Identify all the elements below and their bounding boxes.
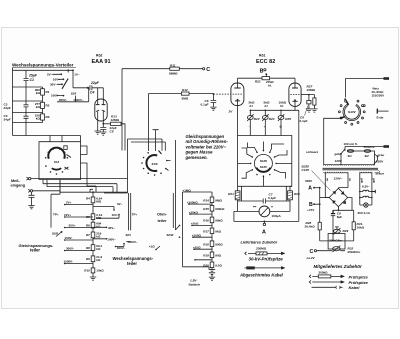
wire: gold tap xyxy=(340,153,342,155)
box resistor R30 xyxy=(328,234,345,250)
svg-text:9MΩ: 9MΩ xyxy=(215,199,222,203)
svg-text:C: C xyxy=(310,249,314,255)
svg-text:R29: R29 xyxy=(343,229,349,233)
ohm divider tap stubs xyxy=(189,204,212,260)
svg-text:Mitgeliefertes Zubehör: Mitgeliefertes Zubehör xyxy=(314,264,363,269)
svg-text:36V 0,1A: 36V 0,1A xyxy=(358,211,371,215)
svg-text:100µA: 100µA xyxy=(272,214,282,218)
capacitor C9 (electrolytic) xyxy=(331,210,335,213)
wire: right triode grid to R27/C8 node xyxy=(301,94,309,96)
svg-text:1000V~: 1000V~ xyxy=(73,98,84,102)
svg-text:Lieferbares Zubehör: Lieferbares Zubehör xyxy=(241,241,278,245)
svg-text:S1/I: S1/I xyxy=(54,160,60,164)
node A (meter output) xyxy=(264,221,266,223)
wire: left cathode to ground xyxy=(97,121,99,131)
svg-text:900Ω: 900Ω xyxy=(215,242,223,246)
svg-text:gelb: gelb xyxy=(372,178,375,183)
ground (R10) xyxy=(90,277,96,280)
switch S2/II arm xyxy=(51,180,60,228)
svg-text:A: A xyxy=(262,230,266,236)
svg-text:gold: gold xyxy=(334,152,342,156)
svg-text:R9: R9 xyxy=(86,257,90,261)
potentiometer R29 xyxy=(335,227,339,229)
switch S1/I wiper contact R xyxy=(64,146,67,150)
svg-text:S1/IV: S1/IV xyxy=(348,110,357,114)
svg-text:S2/II: S2/II xyxy=(52,232,58,236)
rotary switch S1/IV ring xyxy=(343,104,361,120)
terminal B (right) xyxy=(313,203,315,205)
svg-text:gelb: gelb xyxy=(360,178,363,183)
resistor R5 xyxy=(91,214,95,220)
svg-text:C1: C1 xyxy=(30,78,34,82)
wire: horizontal row 2 xyxy=(13,86,43,88)
svg-text:×1kΩ: ×1kΩ xyxy=(191,222,199,226)
switch S2/I wiper xyxy=(62,79,68,89)
scale lamp xyxy=(360,204,372,206)
svg-text:R11: R11 xyxy=(170,63,176,67)
svg-text:Kabel: Kabel xyxy=(349,285,361,290)
resistor R8 xyxy=(91,245,95,251)
wire: cathode bus of pots xyxy=(250,101,298,110)
svg-text:Irl.: Irl. xyxy=(250,104,254,108)
svg-text:R4: R4 xyxy=(86,197,90,201)
mains plug pin 1 xyxy=(384,77,390,80)
svg-text:Irl.: Irl. xyxy=(265,104,269,108)
svg-text:kΩ: kΩ xyxy=(96,234,101,238)
svg-text:Irl.: Irl. xyxy=(268,83,272,87)
svg-text:R6: R6 xyxy=(86,223,90,227)
terminal: measuring input 1 xyxy=(27,177,29,180)
accessories: shielded cable xyxy=(246,266,255,269)
tube EAA91 anode plates xyxy=(96,104,106,106)
svg-text:R16: R16 xyxy=(203,219,209,223)
wire: horizontal row 3 xyxy=(13,100,43,102)
svg-text:R18: R18 xyxy=(203,242,209,246)
svg-text:kΩ: kΩ xyxy=(96,247,101,251)
svg-text:kΩ: kΩ xyxy=(36,91,41,95)
resistor R26 (wirewound) xyxy=(290,186,292,191)
heater Rö1 xyxy=(360,190,372,191)
svg-text:S2/III: S2/III xyxy=(167,233,174,237)
capacitor (input 2 to ground) xyxy=(29,192,35,205)
svg-text:R12: R12 xyxy=(182,88,188,92)
svg-text:230MΩ: 230MΩ xyxy=(256,247,267,251)
contact stub T xyxy=(153,130,159,151)
svg-text:×100Ω: ×100Ω xyxy=(192,233,202,237)
box around rotary switch S1/I xyxy=(39,142,81,180)
tube Rö1 ECC82 right triode xyxy=(294,78,296,87)
svg-text:EAA 91: EAA 91 xyxy=(92,59,111,65)
resistor R4 xyxy=(91,197,95,203)
capacitor C5 xyxy=(100,124,106,132)
svg-text:C: C xyxy=(206,67,210,73)
wire: horizontal row 4 xyxy=(13,112,43,114)
resistor R18 xyxy=(210,241,214,247)
svg-text:100V-: 100V- xyxy=(65,236,73,240)
heater Rö2 xyxy=(360,196,372,197)
wire: top bus of AC divider xyxy=(13,69,74,71)
wire: grid feed (dashed) to ECC82 left grid xyxy=(213,93,231,95)
svg-text:kΩ: kΩ xyxy=(36,105,41,109)
svg-text:kΩ: kΩ xyxy=(96,258,101,262)
ground (R27) xyxy=(311,109,317,112)
box around rotary switch S1/III xyxy=(238,136,292,187)
resistor R28 xyxy=(318,222,321,230)
wire: S1/I box bottom to DC divider xyxy=(59,180,61,193)
rotary switch S1/III contacts xyxy=(263,150,265,152)
svg-text:+: + xyxy=(264,125,266,129)
label pointer B255 xyxy=(312,171,331,191)
svg-text:Erde: Erde xyxy=(377,116,384,120)
svg-text:schwarz: schwarz xyxy=(306,150,319,154)
svg-text:50mA tr.: 50mA tr. xyxy=(364,145,376,149)
resistor R19 xyxy=(210,252,214,258)
svg-text:88MΩ: 88MΩ xyxy=(169,71,178,75)
transformer secondary (anode) winding xyxy=(324,172,348,173)
wire: top bus to S1/I box xyxy=(13,136,81,142)
svg-text:S1/IV: S1/IV xyxy=(260,165,268,169)
capacitor C7 xyxy=(238,199,291,204)
svg-text:200kΩ/lin: 200kΩ/lin xyxy=(329,238,342,242)
svg-text:Batterie: Batterie xyxy=(189,282,201,286)
svg-text:+47V: +47V xyxy=(307,208,315,212)
svg-text:grau: grau xyxy=(377,153,385,157)
svg-text:S2/I: S2/I xyxy=(71,92,77,96)
resistor R22 xyxy=(262,77,270,80)
svg-text:R5: R5 xyxy=(86,215,90,219)
potentiometer R23 xyxy=(249,110,251,115)
wire: left triode cathode down to S1/III box xyxy=(237,101,239,186)
heater circuit verticals xyxy=(360,173,372,205)
wire: DC divider top bus xyxy=(60,191,128,193)
wire: from AC divider down to S1/I box xyxy=(25,123,27,136)
svg-text:1000V~: 1000V~ xyxy=(127,240,138,244)
svg-text:9,5Ω: 9,5Ω xyxy=(215,264,222,268)
svg-text:ca.3V: ca.3V xyxy=(307,256,316,260)
wire: anode bus of ECC82 xyxy=(238,77,296,79)
S2/I tap elbows and contacts xyxy=(93,207,130,247)
svg-text:Ohm-: Ohm- xyxy=(157,213,168,217)
rotary switch S1/II arc xyxy=(146,155,157,171)
node B (top) xyxy=(264,69,266,71)
resistor R6 xyxy=(91,222,95,228)
wire: input 2 to divider bus xyxy=(33,191,60,192)
svg-text:×1Ω: ×1Ω xyxy=(149,245,155,249)
tube EAA91 cathodes xyxy=(96,110,105,112)
switch S2/I contact stubs (top-left) xyxy=(52,74,63,95)
switch S1/II wiper xyxy=(159,151,162,155)
svg-text:3V~: 3V~ xyxy=(117,202,123,206)
svg-text:99kΩ: 99kΩ xyxy=(215,219,223,223)
mains plug pin 2 xyxy=(384,145,390,148)
svg-text:34µF: 34µF xyxy=(4,118,11,122)
svg-text:eingang: eingang xyxy=(11,183,26,187)
rotary switch S1/III ring xyxy=(254,154,272,172)
svg-text:kΩ: kΩ xyxy=(96,225,101,229)
svg-text:300V-: 300V- xyxy=(66,246,74,250)
wire: S1/II box left vertical xyxy=(104,139,165,193)
switch S1/III wiring elbows xyxy=(238,142,292,187)
meter 100uA xyxy=(238,210,260,212)
svg-text:10V~: 10V~ xyxy=(53,77,60,81)
svg-text:Si2: Si2 xyxy=(365,154,370,158)
wire: A bus to bridge AC corner xyxy=(320,197,330,199)
S2/III contact dots xyxy=(179,225,181,227)
label pointer C8 xyxy=(305,106,309,116)
svg-text:0,1µF: 0,1µF xyxy=(300,119,308,123)
battery 1.5V xyxy=(209,270,215,275)
svg-text:900kΩ: 900kΩ xyxy=(215,207,225,211)
svg-text:120V~: 120V~ xyxy=(334,176,343,180)
svg-text:1V~: 1V~ xyxy=(74,72,80,76)
svg-text:220V: 220V xyxy=(376,159,384,163)
svg-text:rot: rot xyxy=(348,178,351,181)
capacitor C3 xyxy=(24,113,29,123)
resistor R16 xyxy=(210,217,214,223)
potentiometer R24 xyxy=(264,110,266,115)
ground (C5) xyxy=(100,132,106,135)
bridge rectifier B250 C125 xyxy=(329,188,347,206)
ground (EAA91 left cathode) xyxy=(95,131,101,134)
svg-text:Prüfspitze: Prüfspitze xyxy=(349,274,369,279)
svg-text:26,4kΩ: 26,4kΩ xyxy=(305,224,316,228)
resistor R2 xyxy=(41,102,45,108)
svg-text:R7: R7 xyxy=(86,233,90,237)
resistor R31 xyxy=(353,210,355,222)
wire: corner to R12 xyxy=(148,94,181,151)
ground (C8) xyxy=(306,109,312,112)
svg-text:8µF: 8µF xyxy=(337,215,343,219)
rotary switch S1/IV contacts xyxy=(363,111,365,113)
accessories: cable (right) xyxy=(312,286,337,288)
svg-text:0,1µF: 0,1µF xyxy=(268,196,276,200)
svg-text:1000V-: 1000V- xyxy=(64,259,74,263)
ground (battery) xyxy=(209,277,215,280)
svg-text:MΩ: MΩ xyxy=(96,216,101,220)
svg-text:9kΩ: 9kΩ xyxy=(215,230,221,234)
svg-text:30V~: 30V~ xyxy=(108,226,115,230)
wire: 1V tap down to C4 junction xyxy=(73,70,89,88)
tube Rö1 ECC82 left triode xyxy=(237,78,239,87)
capacitor C1 xyxy=(24,70,29,87)
wire: left outer vertical of AC divider block xyxy=(12,68,14,136)
svg-text:S1/II: S1/II xyxy=(152,162,158,166)
svg-text:R14: R14 xyxy=(203,199,209,203)
svg-text:200kΩ: 200kΩ xyxy=(319,270,329,274)
resistor R27 xyxy=(309,95,315,98)
svg-text:110/220V: 110/220V xyxy=(372,93,385,97)
switch S1/IV output stub xyxy=(341,117,345,119)
junction dots on pot bus xyxy=(250,110,252,112)
svg-text:20kΩ/lin.: 20kΩ/lin. xyxy=(348,250,361,254)
svg-text:Abgeschirmtes Kabel: Abgeschirmtes Kabel xyxy=(239,272,284,277)
svg-text:C4: C4 xyxy=(90,91,94,95)
svg-text:×10Ω: ×10Ω xyxy=(193,245,201,249)
svg-text:Rö1: Rö1 xyxy=(259,54,266,58)
potentiometer R32 xyxy=(333,247,341,251)
svg-text:R25: R25 xyxy=(285,117,291,121)
wire: bottom DC bus xyxy=(320,240,354,242)
svg-text:12MΩ: 12MΩ xyxy=(111,118,120,122)
node: EAA91 right cathode junction xyxy=(102,121,104,124)
svg-text:Rö2: Rö2 xyxy=(96,54,103,58)
accessories: 30kV probe line xyxy=(245,252,282,255)
wire: taps down to S1/II xyxy=(162,139,165,151)
svg-text:10MΩ: 10MΩ xyxy=(307,88,316,92)
transformer core xyxy=(323,168,379,170)
svg-text:×1MΩ: ×1MΩ xyxy=(183,188,192,192)
svg-text:25µF: 25µF xyxy=(28,74,38,78)
svg-text:ECC 82: ECC 82 xyxy=(256,59,275,65)
terminal C (left) xyxy=(203,68,205,70)
svg-text:Irl.: Irl. xyxy=(280,104,284,108)
svg-text:30-kV-Prüfspitze: 30-kV-Prüfspitze xyxy=(249,256,284,261)
svg-text:C125: C125 xyxy=(302,168,310,172)
svg-text:300V~: 300V~ xyxy=(59,98,68,102)
capacitor C4 xyxy=(87,87,89,89)
wire: input to S1/II box xyxy=(31,178,128,180)
svg-text:R26: R26 xyxy=(294,192,300,196)
svg-text:R23: R23 xyxy=(254,117,260,121)
resistor R12 xyxy=(181,92,189,95)
switch S2/I arm (twin verticals) xyxy=(129,193,131,230)
svg-text:2V+: 2V+ xyxy=(66,200,72,204)
svg-text:braun: braun xyxy=(376,172,385,176)
svg-text:B: B xyxy=(260,68,264,74)
svg-text:A: A xyxy=(308,186,312,192)
svg-text:22µF: 22µF xyxy=(90,81,100,85)
svg-text:teiler: teiler xyxy=(127,261,137,266)
rotary switch S1/I arc xyxy=(48,148,64,159)
wire: parallel drops to measuring bus xyxy=(242,186,287,201)
wire: mains lead 1 xyxy=(345,79,383,98)
svg-text:300V~: 300V~ xyxy=(117,246,126,250)
svg-text:R21: R21 xyxy=(228,192,234,196)
capacitor C8 xyxy=(308,95,310,101)
resistor R13 xyxy=(103,123,110,125)
potentiometer R25 xyxy=(280,110,282,115)
capacitor C6 xyxy=(211,94,217,107)
svg-text:2V~: 2V~ xyxy=(47,72,53,76)
svg-text:R8: R8 xyxy=(86,246,90,250)
accessories: probe 1 (right) xyxy=(309,275,341,278)
svg-text:10V+: 10V+ xyxy=(64,213,71,217)
rotary switch S1/II contacts xyxy=(147,152,149,154)
svg-text:10kΩ: 10kΩ xyxy=(96,269,104,273)
wire: bridge + output xyxy=(333,198,354,211)
svg-text:R20: R20 xyxy=(203,264,209,268)
wire: R13 to S1/II xyxy=(121,124,125,151)
svg-text:MΩ: MΩ xyxy=(96,199,101,203)
svg-text:~: ~ xyxy=(249,125,251,129)
ohm divider chain R14-R20 vertical line xyxy=(211,192,213,269)
svg-text:10V~: 10V~ xyxy=(112,213,119,217)
svg-text:teiler: teiler xyxy=(158,219,168,223)
svg-text:R15: R15 xyxy=(203,207,209,211)
svg-text:rot: rot xyxy=(326,178,329,181)
svg-text:TP+: TP+ xyxy=(132,213,138,217)
wire: nested bus lines to S1/II xyxy=(43,180,117,194)
wire: anode winding to bridge xyxy=(325,173,329,198)
fuse Si1 xyxy=(347,150,353,153)
svg-text:R1: R1 xyxy=(46,90,50,94)
rotary switch S1/I contacts xyxy=(45,157,47,159)
wire: long vertical right of meter box xyxy=(298,110,300,221)
svg-text:10kΩ: 10kΩ xyxy=(357,225,365,229)
wire: anode bus to R11 line xyxy=(121,69,123,151)
wire: S1/IV to transformer primary xyxy=(324,118,341,165)
svg-text:R19: R19 xyxy=(203,254,209,258)
wire: meter bottom bus xyxy=(234,211,299,221)
svg-text:Si1: Si1 xyxy=(348,154,353,158)
terminal: measuring input 2 xyxy=(28,189,30,192)
resistor chain R4-R10 vertical line xyxy=(92,192,94,276)
svg-text:100 mA fl.: 100 mA fl. xyxy=(344,142,358,146)
transformer primary winding xyxy=(324,164,373,165)
resistor R9 xyxy=(91,256,95,262)
svg-text:S2/I: S2/I xyxy=(126,233,132,237)
DC divider tap stubs xyxy=(65,205,93,264)
svg-text:×10kΩ: ×10kΩ xyxy=(189,210,199,214)
ground (C6) xyxy=(210,107,216,110)
svg-text:300V: 300V xyxy=(305,179,313,183)
x1 ohm stub xyxy=(155,249,157,251)
wire: S2/III output bus xyxy=(183,192,210,269)
svg-text:R24: R24 xyxy=(269,117,275,121)
wire: S1/I output loops to divider chain xyxy=(81,146,88,180)
resistor R15 xyxy=(210,206,214,212)
wire: bottom row of AC divider xyxy=(13,122,43,124)
terminal A (right) xyxy=(313,187,315,189)
wire: grau tap xyxy=(377,156,379,158)
resistor R7 xyxy=(91,232,95,238)
svg-text:3MΩ: 3MΩ xyxy=(182,96,189,100)
svg-text:6,3V~: 6,3V~ xyxy=(362,185,370,189)
svg-text:Wechselspannungs-Verteiler: Wechselspannungs-Verteiler xyxy=(12,63,74,68)
ground (input) xyxy=(28,206,34,209)
svg-text:30V+: 30V+ xyxy=(69,223,76,227)
svg-text:S1/III: S1/III xyxy=(260,159,267,163)
terminal C (right) xyxy=(314,250,316,252)
resistor R1 xyxy=(41,89,45,95)
svg-text:gemessen.: gemessen. xyxy=(185,155,208,160)
capacitor C2 xyxy=(24,87,29,113)
svg-text:R17: R17 xyxy=(203,230,209,234)
resistor R3 xyxy=(41,114,45,120)
svg-text:C5: C5 xyxy=(110,129,114,133)
svg-text:R3: R3 xyxy=(46,115,50,119)
accessories: probe 2 (right) xyxy=(309,280,341,283)
svg-text:teiler: teiler xyxy=(30,247,40,252)
resistor R17 xyxy=(210,228,214,234)
wire: S1/II box right vertical down to S2/III xyxy=(175,140,177,230)
svg-text:kΩ: kΩ xyxy=(36,116,41,120)
svg-text:30V~: 30V~ xyxy=(50,82,57,86)
fuse Si2 xyxy=(354,150,365,152)
ohm divider top tap xyxy=(183,191,213,193)
wire: C4 to EAA91 anodes xyxy=(98,88,104,100)
wire: mains lead 2 with fuses xyxy=(345,147,384,152)
node: C6 junction xyxy=(213,93,215,95)
svg-text:120V: 120V xyxy=(335,159,343,163)
svg-text:×100kΩ: ×100kΩ xyxy=(187,200,198,204)
svg-text:TP+: TP+ xyxy=(53,213,59,217)
resistor R20 xyxy=(210,262,214,268)
switch S1/IV wiper stub xyxy=(345,99,349,105)
tube Rö2 EAA91 envelope xyxy=(95,99,107,121)
svg-text:0,1µF: 0,1µF xyxy=(201,103,209,107)
svg-text:R10: R10 xyxy=(84,269,90,273)
